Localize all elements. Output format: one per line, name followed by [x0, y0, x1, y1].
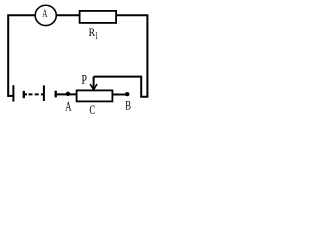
battery cell 1 long plate	[12, 85, 14, 101]
battery: foot wire from left vertical	[7, 95, 13, 97]
slider arrow head	[90, 84, 97, 90]
wire: left vertical + top-left segment to ammeter	[8, 15, 35, 97]
wire: resistor right, down right side, U-bottom, up to slider wire level	[94, 15, 148, 97]
wire: rheostat right to terminal B	[112, 94, 129, 96]
battery cell 1 short plate	[23, 91, 25, 98]
svg-text:C: C	[89, 102, 95, 117]
node B dot	[125, 92, 129, 96]
ammeter U: circle	[35, 5, 56, 25]
svg-text:1: 1	[95, 31, 98, 42]
wire: battery to rheostat terminal A	[56, 93, 77, 95]
node A dot	[66, 92, 70, 96]
svg-text:B: B	[125, 98, 131, 113]
background	[0, 0, 155, 123]
battery cell 2 long plate	[43, 85, 45, 101]
resistor R1 box	[80, 11, 117, 23]
wire: ammeter to resistor R1	[57, 14, 80, 16]
svg-text:A: A	[42, 6, 47, 20]
battery cell 2 short plate	[55, 91, 57, 98]
svg-text:A: A	[65, 99, 72, 114]
wire stub + dashed link (more cells)	[24, 93, 27, 95]
rheostat box C	[77, 90, 113, 101]
svg-text:P: P	[82, 72, 87, 87]
slider arrow shaft P	[93, 77, 95, 90]
